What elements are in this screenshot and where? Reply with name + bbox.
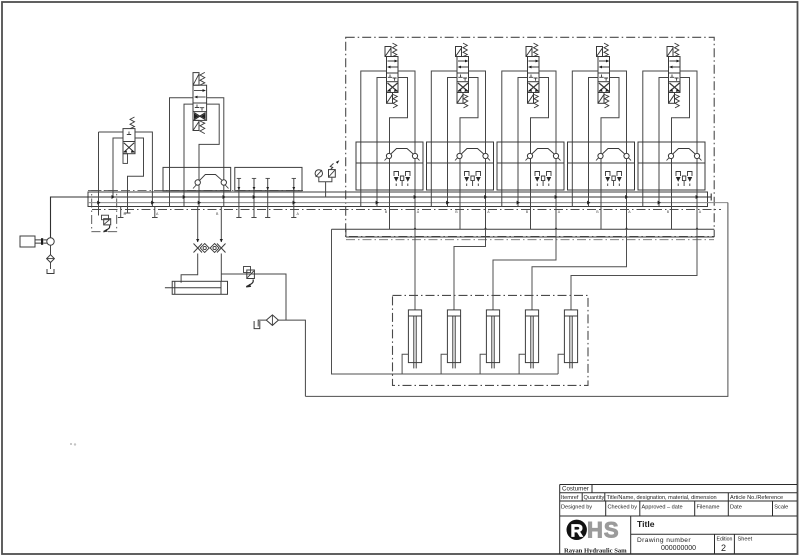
relief valve PR2 <box>221 274 286 320</box>
svg-text:Checked by: Checked by <box>608 505 638 511</box>
wire manifold port 1 to cylinder 1 <box>414 229 416 310</box>
wire manifold port 5 to cylinder 5 <box>571 229 697 310</box>
svg-text:2: 2 <box>721 543 726 553</box>
flow control FC2 <box>220 207 222 243</box>
svg-text:Quantity: Quantity <box>584 495 605 501</box>
valve BV solenoid top <box>193 73 199 86</box>
SV wires <box>99 132 124 215</box>
valve BV solenoid bottom + spring <box>193 120 199 130</box>
cylinder CY3 <box>480 310 500 374</box>
filter tank symbol <box>258 320 266 326</box>
RHS logo <box>567 520 587 540</box>
svg-text:Edition: Edition <box>717 537 733 543</box>
gauge wires <box>319 177 332 197</box>
valve section U3 (directional valve, shuttle block, outlet) <box>497 43 564 229</box>
pump P1 <box>47 238 54 245</box>
valve section U4 (directional valve, shuttle block, outlet) <box>568 43 635 229</box>
cylinder CY4 <box>519 310 539 374</box>
BV wires <box>170 98 194 207</box>
wire manifold port 3 to cylinder 3 <box>493 229 556 310</box>
valve BV body <box>193 85 207 120</box>
cylinder group dashed enclosure <box>393 295 589 385</box>
stray plot mark <box>70 443 72 445</box>
svg-text:Scale: Scale <box>774 505 788 511</box>
gauge port block <box>235 167 302 190</box>
return filter F2 <box>266 315 278 326</box>
cylinder CY5 <box>558 310 578 374</box>
pressure gauge G1 <box>315 170 322 177</box>
suction strainer F1 <box>50 245 52 269</box>
pressure line P <box>51 194 712 238</box>
manifold base plate <box>332 229 715 237</box>
title block texts <box>561 486 788 511</box>
rail centre axis <box>92 209 721 211</box>
svg-text:Costumer: Costumer <box>562 486 589 493</box>
wire manifold port 4 to cylinder 4 <box>532 229 627 310</box>
valve section U2 (directional valve, shuttle block, outlet) <box>427 43 494 229</box>
capped test ports <box>118 207 124 218</box>
pilot valve SV spring <box>130 117 135 129</box>
svg-text:Article No./Reference: Article No./Reference <box>730 495 783 501</box>
cylinder CY1 <box>402 310 422 374</box>
valve group dashed enclosure <box>346 37 715 236</box>
pressure regulator RV1 <box>329 170 336 178</box>
tank return line T <box>88 202 728 204</box>
valve section U5 (directional valve, shuttle block, outlet) <box>638 43 705 229</box>
suction tank symbol <box>47 269 54 274</box>
block test ports <box>238 178 240 217</box>
tank return long wire <box>305 203 728 397</box>
junction arrows <box>97 201 100 205</box>
relief valve dashed enclosure <box>92 190 117 231</box>
clamp cylinder HC <box>172 281 227 294</box>
wire manifold port 2 to cylinder 2 <box>454 229 486 310</box>
manifold rail band <box>88 192 708 207</box>
svg-text:Date: Date <box>730 505 742 511</box>
svg-text:HS: HS <box>587 518 620 543</box>
svg-text:Approved – date: Approved – date <box>642 505 683 511</box>
cylinder CY2 <box>441 310 461 374</box>
left manifold axis <box>88 190 303 192</box>
electric motor M1 <box>20 236 35 247</box>
svg-text:Title/Name, designation, mater: Title/Name, designation, material, dimen… <box>607 495 717 501</box>
pilot valve SV body <box>123 129 135 154</box>
svg-text:Drawing number: Drawing number <box>637 537 691 544</box>
coupling <box>35 240 47 243</box>
svg-text:Filename: Filename <box>697 505 720 511</box>
svg-text:Sheet: Sheet <box>738 537 753 543</box>
svg-text:Itemref: Itemref <box>561 495 579 501</box>
flow control FC1 <box>197 207 199 243</box>
svg-text:000000000: 000000000 <box>661 545 696 552</box>
junction to return line <box>278 320 305 396</box>
shuttle check block <box>163 167 231 190</box>
title block frame <box>560 485 797 555</box>
pilot valve SV actuator pin <box>123 154 128 164</box>
svg-text:R: R <box>571 521 584 541</box>
svg-text:Rayan Hydraulic Sam: Rayan Hydraulic Sam <box>564 547 627 554</box>
relief valve PR1 <box>102 215 109 220</box>
valve section U1 (directional valve, shuttle block, outlet) <box>356 43 423 229</box>
svg-text:Designed by: Designed by <box>561 505 592 511</box>
svg-text:Title: Title <box>637 519 655 529</box>
wire rail to PR1 <box>98 197 100 215</box>
cylinder rod-side common wire <box>332 229 559 374</box>
